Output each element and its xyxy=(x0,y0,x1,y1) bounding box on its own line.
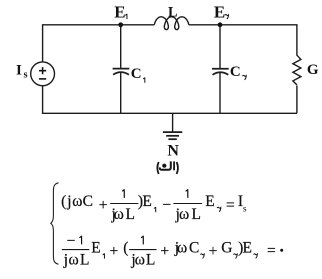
current source minus sign xyxy=(39,78,46,80)
svg-text:C: C xyxy=(83,193,93,210)
svg-text:=: = xyxy=(267,243,276,260)
svg-text:E: E xyxy=(114,2,125,21)
wire C2 branch bottom xyxy=(219,73,221,114)
ground symbol xyxy=(163,113,182,139)
svg-text:L: L xyxy=(168,4,177,20)
equation 2 xyxy=(62,233,283,269)
caption (الف) xyxy=(157,161,178,174)
svg-text:j: j xyxy=(63,251,68,268)
node E2 junction dot xyxy=(218,22,223,27)
wire C1 branch top xyxy=(120,27,122,69)
label C2 subscript ٢ xyxy=(242,75,246,80)
svg-text:C: C xyxy=(131,66,142,82)
svg-text:L: L xyxy=(126,206,135,223)
svg-text:L: L xyxy=(80,251,89,268)
equation 1 xyxy=(61,189,247,223)
equation system left brace xyxy=(51,183,59,264)
svg-text:ω: ω xyxy=(177,239,187,256)
node E1 junction dot xyxy=(118,22,123,27)
svg-text:ω: ω xyxy=(179,206,189,223)
svg-text:ω: ω xyxy=(114,206,124,223)
svg-text:L: L xyxy=(146,251,155,268)
svg-text:E: E xyxy=(142,193,151,210)
current source Is circle xyxy=(31,62,55,86)
svg-text:E: E xyxy=(91,239,100,256)
wire C2 branch top xyxy=(219,27,221,69)
svg-text:E: E xyxy=(214,2,225,21)
capacitor C2 xyxy=(212,69,229,75)
svg-text:−: − xyxy=(162,197,171,214)
svg-text:+: + xyxy=(209,243,218,260)
svg-text:s: s xyxy=(243,205,247,215)
svg-text:C: C xyxy=(230,64,241,80)
svg-text:I: I xyxy=(16,63,22,79)
label C1 subscript ١ xyxy=(143,78,145,83)
svg-text:C: C xyxy=(189,239,199,256)
wire left-bottom segment xyxy=(43,86,297,114)
svg-text:(: ( xyxy=(123,239,128,256)
svg-text:E: E xyxy=(243,239,252,256)
svg-text:N: N xyxy=(167,142,179,159)
svg-text:G: G xyxy=(307,62,319,78)
wire top-right segment xyxy=(189,25,297,56)
svg-text:=: = xyxy=(226,197,235,214)
svg-text:L: L xyxy=(192,206,201,223)
svg-text:+: + xyxy=(109,243,118,260)
svg-text:(: ( xyxy=(61,193,66,210)
label E2 subscript ٢ xyxy=(225,15,229,20)
wire resistor bottom xyxy=(296,86,298,114)
current source plus sign xyxy=(39,67,46,74)
svg-text:G: G xyxy=(221,239,232,256)
capacitor C1 xyxy=(113,69,130,75)
wire C1 branch bottom xyxy=(120,72,122,113)
svg-text:ω: ω xyxy=(68,251,78,268)
label E1 subscript ١ xyxy=(125,14,127,19)
inductor L xyxy=(154,17,189,30)
svg-text:j: j xyxy=(66,193,71,210)
svg-text:+: + xyxy=(160,243,169,260)
svg-text:E: E xyxy=(205,193,214,210)
svg-text:ω: ω xyxy=(72,193,82,210)
svg-text:ω: ω xyxy=(135,251,145,268)
svg-text:s: s xyxy=(24,69,28,80)
svg-text:+: + xyxy=(99,197,108,214)
wire top-left segment xyxy=(43,25,155,62)
resistor G zigzag xyxy=(293,55,301,85)
svg-text:−: − xyxy=(67,233,76,250)
